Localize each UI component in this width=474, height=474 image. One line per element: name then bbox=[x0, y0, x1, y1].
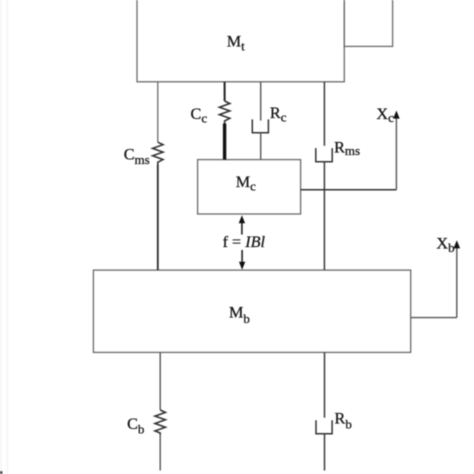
svg-text:Rc: Rc bbox=[270, 104, 287, 124]
svg-text:Rb: Rb bbox=[335, 410, 352, 432]
svg-text:Xc: Xc bbox=[376, 105, 394, 125]
svg-text:Cms: Cms bbox=[124, 146, 150, 168]
svg-text:Rms: Rms bbox=[334, 139, 360, 159]
svg-text:Xb: Xb bbox=[436, 235, 454, 256]
svg-text:Mb: Mb bbox=[229, 304, 250, 326]
svg-text:Mc: Mc bbox=[236, 173, 256, 194]
svg-text:Mt: Mt bbox=[227, 33, 245, 54]
svg-text:Cb: Cb bbox=[127, 415, 144, 437]
svg-text:Cc: Cc bbox=[191, 105, 208, 125]
svg-text:f = IBl: f = IBl bbox=[223, 233, 266, 251]
